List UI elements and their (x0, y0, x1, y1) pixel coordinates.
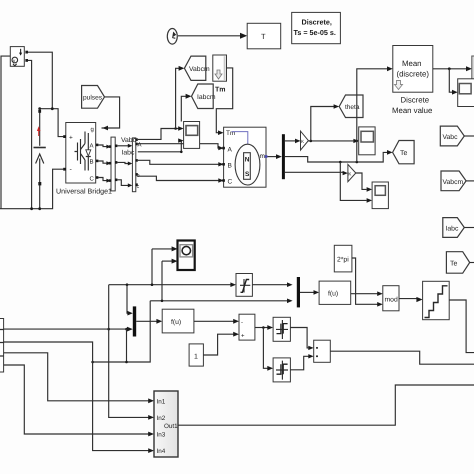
svg-text:mod: mod (385, 297, 398, 304)
svg-text:Universal Bridge1: Universal Bridge1 (56, 187, 112, 195)
svg-text:Tm: Tm (226, 130, 235, 137)
svg-text:Out1: Out1 (164, 423, 178, 430)
svg-text:In2: In2 (157, 415, 166, 422)
svg-text:A: A (138, 142, 142, 149)
svg-text:T: T (261, 32, 266, 41)
svg-text:C: C (90, 176, 95, 183)
svg-text:Te: Te (400, 150, 408, 157)
svg-text:In3: In3 (157, 432, 166, 439)
svg-text:f(u): f(u) (328, 291, 338, 298)
svg-text:B: B (90, 159, 94, 166)
svg-text:g: g (91, 127, 94, 133)
svg-text:Discrete,: Discrete, (302, 18, 332, 27)
svg-text:Mean: Mean (402, 59, 422, 68)
svg-text:Discrete: Discrete (401, 96, 430, 105)
svg-text:K: K (301, 139, 304, 144)
svg-text:c: c (137, 184, 140, 190)
svg-text:f(u): f(u) (171, 319, 181, 326)
svg-text:In4: In4 (157, 448, 166, 455)
svg-text:S: S (245, 171, 250, 178)
svg-text:theta: theta (345, 104, 360, 111)
svg-text:N: N (245, 157, 250, 164)
svg-text:Vabcm: Vabcm (443, 179, 464, 186)
svg-text:Ts = 5e-05 s.: Ts = 5e-05 s. (294, 28, 336, 37)
svg-text:Iabc: Iabc (122, 150, 135, 157)
svg-text:A: A (90, 143, 94, 150)
svg-text:Te: Te (450, 261, 458, 268)
svg-text:Iabcm: Iabcm (197, 94, 216, 101)
svg-text:1: 1 (194, 354, 198, 361)
svg-text:pulses: pulses (83, 94, 103, 101)
svg-text:Mean value: Mean value (392, 106, 432, 115)
svg-text:In1: In1 (157, 399, 166, 406)
svg-text:m: m (260, 153, 265, 160)
svg-text:+: + (241, 334, 245, 340)
svg-text:2*pi: 2*pi (337, 257, 349, 264)
svg-text:+: + (69, 135, 73, 142)
svg-text:B: B (228, 163, 232, 170)
svg-text:-: - (241, 320, 243, 326)
svg-text:Vabc: Vabc (121, 137, 137, 144)
svg-text:Tm: Tm (215, 87, 226, 94)
svg-text:A: A (228, 147, 233, 154)
svg-text:Vabc: Vabc (443, 134, 459, 141)
svg-text:K: K (348, 171, 351, 176)
svg-text:(discrete): (discrete) (397, 70, 430, 79)
svg-text:Iabc: Iabc (446, 226, 459, 233)
svg-text:C: C (228, 179, 233, 186)
svg-text:Vabcm: Vabcm (189, 66, 210, 73)
